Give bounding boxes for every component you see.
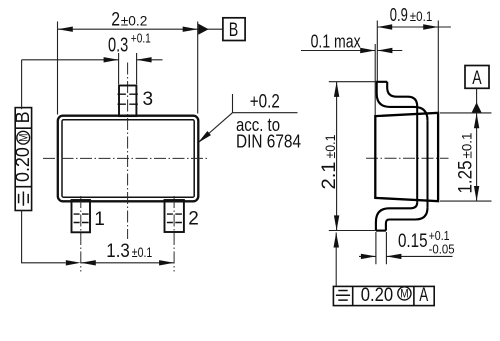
- svg-text:1.25: 1.25: [455, 160, 477, 193]
- svg-text:±0.1: ±0.1: [410, 8, 433, 24]
- svg-text:0.20: 0.20: [361, 285, 393, 306]
- top lead (pin 3) outer edge: [377, 82, 428, 121]
- leader from frame B to 1.3 dimension: [22, 211, 66, 263]
- svg-text:±0.2: ±0.2: [121, 13, 148, 29]
- pin 2 bend lines: [167, 214, 182, 222]
- svg-text:B: B: [13, 111, 34, 123]
- datum B box: [223, 18, 245, 41]
- pin 3 bend lines: [118, 94, 138, 104]
- lead lines through body: [417, 106, 427, 207]
- leader from frame B to 0.3 dimension: [21, 60, 23, 109]
- svg-text:2: 2: [111, 10, 120, 31]
- svg-text:2: 2: [188, 209, 199, 230]
- dimension 0.15: [359, 255, 453, 257]
- symmetry symbol: [336, 291, 350, 301]
- top lead inner edge: [387, 82, 417, 107]
- centerline pin 1: [80, 196, 82, 272]
- svg-text:A: A: [419, 285, 428, 306]
- dimension 0.9 +-0.1: [377, 26, 451, 28]
- dimension 1.25 arrows: [474, 113, 479, 128]
- svg-text:0.9: 0.9: [390, 4, 408, 25]
- dimension 0.3 extension lines: [119, 53, 137, 84]
- svg-text:2.1: 2.1: [318, 162, 340, 190]
- package body inner line: [62, 120, 194, 197]
- svg-text:+0.1: +0.1: [131, 32, 151, 46]
- dimension 2 extension lines: [58, 22, 198, 115]
- dimension 0.1 max: [301, 50, 402, 52]
- svg-text:-0.05: -0.05: [429, 242, 455, 257]
- symmetry symbol: [19, 192, 29, 206]
- dimension 1.25 extension lines: [440, 113, 492, 201]
- datum A box: [465, 66, 489, 89]
- bottom lead foot face: [376, 230, 386, 232]
- centerline horizontal (side view): [366, 157, 449, 159]
- pin 1: [72, 200, 91, 232]
- package body outer outline: [58, 116, 199, 202]
- datum B triangle: [198, 24, 208, 35]
- svg-text:1: 1: [94, 209, 105, 230]
- dimension 0.3 +0.1 line: [22, 59, 163, 61]
- side body outline: [375, 113, 438, 201]
- dimension 2.1 +-0.1 (vertical): [336, 82, 338, 231]
- dimension 2 +-0.2 line: [58, 28, 223, 30]
- svg-text:+0.2: +0.2: [250, 92, 280, 113]
- dimension 2 arrows: [58, 27, 73, 32]
- svg-text:M: M: [400, 289, 408, 301]
- dimension 1.3 +-0.1 line: [81, 262, 174, 264]
- bottom lead outer edge: [386, 208, 428, 231]
- dimension 1.3 arrows: [81, 260, 96, 265]
- note leader line: [199, 94, 298, 142]
- svg-text:±0.1: ±0.1: [132, 244, 153, 260]
- svg-text:±0.1: ±0.1: [459, 132, 475, 158]
- svg-text:3: 3: [143, 89, 154, 110]
- centerline horizontal (package axis): [43, 157, 210, 159]
- svg-text:0.20: 0.20: [13, 147, 34, 182]
- svg-text:±0.1: ±0.1: [322, 134, 338, 158]
- svg-text:0.3: 0.3: [108, 35, 128, 57]
- svg-text:DIN 6784: DIN 6784: [236, 131, 301, 152]
- pin 1 bend lines: [74, 214, 89, 222]
- pin 2: [165, 200, 184, 232]
- svg-text:0.15: 0.15: [398, 230, 428, 252]
- leader from frame A up to seating plane: [335, 233, 337, 287]
- datum A triangle and leader: [476, 88, 478, 201]
- dimension 0.3 arrows: [104, 57, 119, 62]
- centerline pin 2: [173, 196, 175, 272]
- svg-text:B: B: [229, 20, 239, 41]
- svg-text:M: M: [18, 134, 30, 142]
- feature control frame A: [333, 285, 434, 306]
- feature control frame B (rotated): [13, 108, 34, 211]
- pin 3: [119, 86, 136, 117]
- svg-text:A: A: [472, 68, 482, 89]
- svg-text:1.3: 1.3: [106, 240, 130, 262]
- centerline vertical (package axis): [127, 63, 129, 240]
- bottom lead (pins 1,2) inner edge: [376, 202, 417, 230]
- svg-text:0.1 max: 0.1 max: [311, 30, 362, 51]
